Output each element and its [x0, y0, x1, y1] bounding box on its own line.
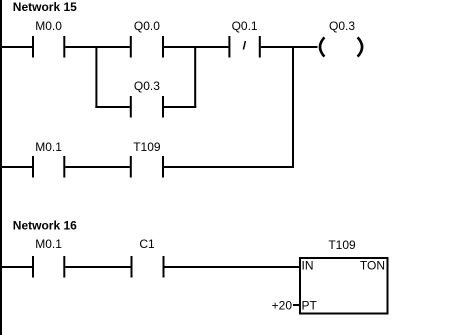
- contact M0.1 net16: [32, 256, 65, 278]
- wire net16 from rail to M0.1: [0, 266, 32, 268]
- branch wire right segment: [164, 106, 196, 108]
- wire Q0.0 to Q0.1: [164, 46, 228, 48]
- branch wire left segment: [95, 106, 129, 108]
- wire Q0.1 to coil: [261, 46, 318, 48]
- svg-text:M0.1: M0.1: [35, 237, 62, 251]
- PT input tick wire: [293, 304, 300, 306]
- contact M0.1: [32, 156, 65, 178]
- svg-text:T109: T109: [328, 238, 356, 252]
- contact C1: [131, 256, 165, 278]
- wire C1 to timer box IN: [165, 266, 301, 268]
- contact Q0.1 normally-closed: [228, 36, 260, 58]
- svg-text:M0.0: M0.0: [35, 19, 62, 33]
- svg-text:Network 15: Network 15: [13, 0, 77, 14]
- svg-text:T109: T109: [133, 140, 161, 154]
- svg-text:IN: IN: [302, 259, 314, 273]
- contact T109: [130, 156, 164, 178]
- svg-text:C1: C1: [139, 237, 155, 251]
- coil Q0.3: [320, 37, 362, 56]
- svg-text:Q0.1: Q0.1: [232, 19, 258, 33]
- wire M0.1 to C1: [65, 266, 130, 268]
- timer box T109 TON: [300, 258, 388, 314]
- svg-text:TON: TON: [360, 259, 385, 273]
- wire rung2 from rail to M0.1: [0, 166, 32, 168]
- svg-text:Network 16: Network 16: [13, 219, 77, 233]
- svg-text:Q0.3: Q0.3: [329, 19, 355, 33]
- wire M0.1 to T109: [65, 166, 130, 168]
- branch left vertical wire: [95, 46, 97, 108]
- svg-text:Q0.3: Q0.3: [134, 79, 160, 93]
- junction vertical wire from rung1 down to rung2: [292, 46, 294, 168]
- wire rung1 from rail to M0.0: [0, 46, 32, 48]
- left power rail: [0, 0, 2, 335]
- branch right vertical wire: [194, 46, 196, 108]
- wire T109 to junction: [164, 166, 294, 168]
- contact Q0.3 branch: [130, 96, 164, 118]
- wire M0.0 to Q0.0: [65, 46, 130, 48]
- svg-text:+20: +20: [272, 298, 293, 312]
- contact M0.0: [32, 36, 65, 58]
- svg-text:Q0.0: Q0.0: [134, 19, 160, 33]
- svg-text:M0.1: M0.1: [35, 140, 62, 154]
- svg-text:PT: PT: [302, 299, 318, 313]
- contact Q0.0: [130, 36, 164, 58]
